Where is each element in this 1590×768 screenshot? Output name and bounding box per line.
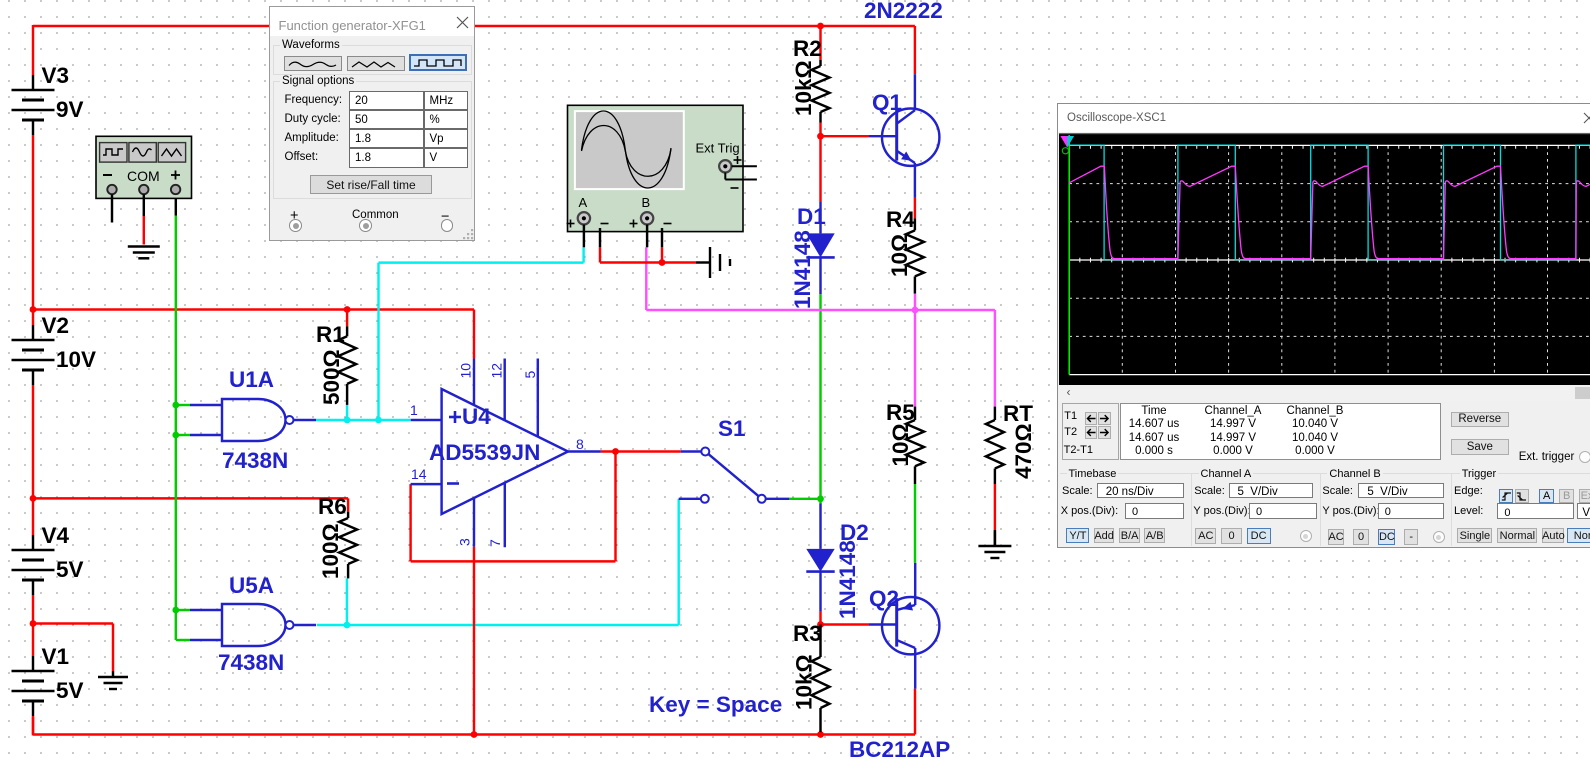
svg-text:14: 14 xyxy=(411,466,427,482)
node: green junction U1A input 2 xyxy=(172,432,179,439)
label: 2N2222 part for Q1 xyxy=(864,0,943,23)
wire: XFG1 COM terminal to ground xyxy=(143,194,145,244)
wire: scope ground net red xyxy=(600,247,696,262)
node: cyan junction scope-A drop xyxy=(375,417,382,424)
wire: red D2 to R3 junction xyxy=(819,611,821,625)
pin 5 label xyxy=(522,371,538,379)
svg-text:R2: R2 xyxy=(793,36,822,61)
svg-text:10V: 10V xyxy=(56,347,96,372)
svg-text:R4: R4 xyxy=(886,207,915,232)
wire: green input stubs to gates xyxy=(176,405,190,640)
wire: R2 column red segments xyxy=(819,26,821,202)
wire: Q2 base red xyxy=(821,623,870,625)
wire: magenta R4 bottom to R5 top xyxy=(914,294,916,407)
transistor Q2 BC212AP PNP xyxy=(869,563,939,689)
svg-text:10kΩ: 10kΩ xyxy=(791,60,816,116)
svg-text:3: 3 xyxy=(457,538,473,546)
svg-text:1N4148: 1N4148 xyxy=(835,540,860,619)
svg-text:RT: RT xyxy=(1003,401,1033,426)
svg-text:V3: V3 xyxy=(42,63,70,88)
svg-text:A: A xyxy=(579,195,588,210)
node: green junction U5A input 1 xyxy=(172,607,179,614)
node: junction at V4 top rail xyxy=(30,495,37,502)
wire: left rail x=33 red segments xyxy=(32,25,34,736)
node: green junction U1A input 1 xyxy=(172,402,179,409)
pin 10 label xyxy=(458,363,474,379)
svg-text:1: 1 xyxy=(410,402,418,418)
svg-text:Key = Space: Key = Space xyxy=(649,692,782,717)
svg-text:AD5539JN: AD5539JN xyxy=(429,440,540,465)
svg-text:R3: R3 xyxy=(793,621,822,646)
node: junction Q1 base tee xyxy=(817,133,824,140)
wire: XFG1 minus terminal stub xyxy=(111,194,113,222)
pin 3 label xyxy=(457,538,473,546)
ground: below RT xyxy=(978,530,1011,558)
wire: cyan R1 bottom stub xyxy=(346,405,348,420)
svg-text:R6: R6 xyxy=(318,494,347,519)
svg-text:100Ω: 100Ω xyxy=(318,523,343,579)
node: cyan junction R6 bottom xyxy=(344,622,351,629)
battery V1 5V xyxy=(12,644,84,716)
pin 1 label xyxy=(410,402,418,418)
wire: bottom red bus xyxy=(33,717,915,735)
svg-text:R5: R5 xyxy=(886,400,915,425)
NAND gate U5A 7438N xyxy=(190,573,316,675)
resistor R2 10k ohm xyxy=(791,36,830,123)
svg-text:500Ω: 500Ω xyxy=(319,349,344,405)
wire: cyan U1A output node xyxy=(316,419,411,421)
wire: green R5 bottom to Q2 emitter xyxy=(914,484,916,563)
wire: magenta scope B to RT top xyxy=(646,247,995,406)
resistor R3 10k ohm xyxy=(792,621,830,732)
pin 14 label xyxy=(411,466,427,482)
wire: green D1 bottom to D2 top xyxy=(819,294,821,503)
svg-text:V2: V2 xyxy=(42,313,70,338)
transistor Q1 2N2222 NPN xyxy=(869,74,939,198)
svg-text:7438N: 7438N xyxy=(222,448,288,473)
svg-text:Q2: Q2 xyxy=(869,586,899,611)
node: magenta junction R4/R5 column xyxy=(912,307,919,314)
diode D1 1N4148 xyxy=(790,202,835,309)
ground: scope ground (rotated right) xyxy=(696,247,730,278)
svg-text:U4: U4 xyxy=(462,404,491,429)
wire: red branch V4 junction to R6 xyxy=(33,498,348,512)
svg-text:7: 7 xyxy=(487,539,503,547)
svg-text:10Ω: 10Ω xyxy=(887,234,912,277)
node: junction R3 bottom on bottom bus xyxy=(817,731,824,738)
svg-text:10Ω: 10Ω xyxy=(888,423,913,466)
wire: scope A- stub xyxy=(599,228,601,247)
wire: Q1 emitter to R4 red xyxy=(914,198,916,219)
wire: red RT bottom to ground xyxy=(994,484,996,545)
svg-text:7438N: 7438N xyxy=(218,650,284,675)
svg-text:5V: 5V xyxy=(56,678,84,703)
svg-text:U1A: U1A xyxy=(229,367,274,392)
oscilloscope XSC1 window xyxy=(1057,103,1590,548)
svg-text:5V: 5V xyxy=(56,557,84,582)
svg-text:9V: 9V xyxy=(56,97,84,122)
node: junction pin3 wire on bottom bus xyxy=(471,731,478,738)
wire: scope A+ stub xyxy=(583,225,585,248)
svg-text:Ext Trig: Ext Trig xyxy=(696,141,740,156)
wire: red op-amp output to S1 xyxy=(601,450,681,452)
NAND gate U1A 7438N xyxy=(190,367,316,473)
svg-text:12: 12 xyxy=(489,363,505,379)
pin 7 label xyxy=(487,539,503,547)
svg-text:U5A: U5A xyxy=(229,573,274,598)
svg-text:1N4148: 1N4148 xyxy=(790,230,815,309)
svg-text:Q1: Q1 xyxy=(872,90,902,115)
node: junction Q2 base tee xyxy=(817,621,824,628)
wire: green XFG1 to gate inputs vertical xyxy=(175,194,177,640)
svg-text:BC212AP: BC212AP xyxy=(849,737,950,762)
ground: below V1 branch xyxy=(98,671,128,689)
battery V3 9V xyxy=(12,63,84,135)
svg-text:2N2222: 2N2222 xyxy=(864,0,943,23)
label: Key = Space for S1 xyxy=(649,692,782,717)
resistor RT 470 ohm xyxy=(986,401,1036,484)
node: cyan junction R1 bottom xyxy=(344,417,351,424)
node: junction at V1 top rail xyxy=(30,620,37,627)
battery V4 5V xyxy=(12,523,84,595)
wire: cyan U5A output to S1 xyxy=(317,499,679,625)
svg-text:470Ω: 470Ω xyxy=(1011,423,1036,479)
svg-text:10kΩ: 10kΩ xyxy=(792,654,817,710)
wire: red feedback loop pin8 to pin14 xyxy=(411,452,616,562)
resistor R1 500 ohm xyxy=(316,310,356,406)
resistor R6 100 ohm xyxy=(318,494,357,579)
op-amp U4 AD5539JN xyxy=(411,359,601,548)
node: junction op-amp output / feedback xyxy=(612,448,619,455)
pin 8 label xyxy=(576,436,584,452)
svg-text:V4: V4 xyxy=(42,523,70,548)
wire: red op-amp pin3 to bottom bus xyxy=(473,547,475,735)
node: junction scope B- on ground net xyxy=(659,259,666,266)
switch S1 (Key = Space) xyxy=(679,416,790,503)
svg-text:B: B xyxy=(642,195,651,210)
node: green junction at S1 to diode column xyxy=(817,495,824,502)
wire: green S1 to diode column xyxy=(789,498,820,500)
label: BC212AP part for Q2 xyxy=(849,737,950,762)
ground: below XFG1 COM xyxy=(128,247,160,259)
svg-text:10: 10 xyxy=(458,363,474,379)
diode D2 1N4148 xyxy=(806,504,868,620)
wire: cyan R6 bottom stub xyxy=(346,578,348,625)
function generator XFG1 dialog window xyxy=(269,6,475,241)
wire: scope B- stub xyxy=(661,228,663,247)
battery V2 10V xyxy=(12,313,97,385)
resistor R5 10 ohm xyxy=(886,400,924,484)
wire: Q1 collector red drop xyxy=(914,26,916,74)
wire: red branch V1 to ground xyxy=(33,624,113,672)
wire: red Q2 collector to bottom bus xyxy=(914,689,916,735)
svg-text:R1: R1 xyxy=(316,322,345,347)
svg-text:S1: S1 xyxy=(718,416,746,441)
svg-text:D1: D1 xyxy=(797,204,826,229)
oscilloscope XSC1 icon xyxy=(567,105,757,231)
svg-text:V1: V1 xyxy=(42,644,70,669)
function generator XFG1 icon xyxy=(96,136,192,198)
wire: red bus y=309.5 from V2 junction to op-amp pin10 xyxy=(33,310,474,359)
node: junction at V2/V3 rail and mid bus xyxy=(30,306,37,313)
svg-text:COM: COM xyxy=(127,168,160,184)
wire: top red bus from V3 to Q1 collector xyxy=(33,25,915,27)
wire: cyan to scope channel A xyxy=(379,247,584,420)
pin 12 label xyxy=(489,363,505,379)
wire: Q1 base red xyxy=(821,135,870,137)
wire: scope B+ stub xyxy=(646,225,648,248)
svg-text:8: 8 xyxy=(576,436,584,452)
node: junction R1 top on mid bus xyxy=(344,306,351,313)
node: junction R2 top on top bus xyxy=(817,23,824,30)
resistor R4 10 ohm xyxy=(886,207,924,294)
svg-text:5: 5 xyxy=(522,371,538,379)
